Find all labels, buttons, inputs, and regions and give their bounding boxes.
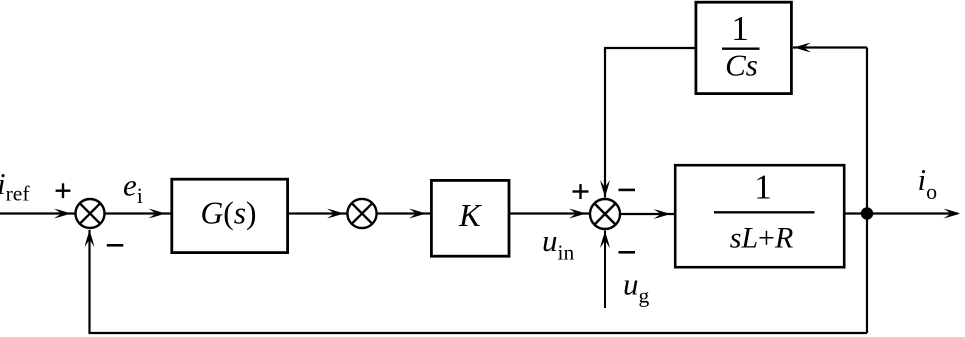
- block K: [431, 180, 509, 256]
- wire S2 to block 1/(sL+R): [620, 213, 675, 215]
- svg-text:1: 1: [731, 9, 749, 48]
- svg-text:K: K: [458, 197, 482, 233]
- svg-text:1: 1: [754, 167, 772, 206]
- wire node to 1/Cs input: [793, 46, 867, 48]
- wire multiplier to K: [377, 212, 431, 214]
- svg-text:Cs: Cs: [725, 48, 758, 83]
- wire input to summing junction S1: [0, 212, 75, 214]
- svg-text:sL+R: sL+R: [730, 221, 794, 254]
- wire S1 to G(s): [105, 212, 171, 214]
- wire node vertical: [866, 48, 868, 334]
- wire K to summing junction S2: [510, 212, 590, 214]
- block 1/Cs: [696, 2, 792, 93]
- node N1: [861, 207, 873, 219]
- plus sign at S1: [56, 183, 71, 198]
- wire G(s) to multiplier: [289, 212, 348, 214]
- wire u_g up into S2: [604, 231, 606, 309]
- minus sign top-right of S2: [619, 189, 636, 192]
- minus sign bottom-right of S2: [619, 251, 636, 254]
- block G(s): [172, 179, 288, 252]
- svg-text:G(s): G(s): [200, 196, 256, 231]
- plus sign at S2: [573, 184, 589, 199]
- block 1/(sL+R): [675, 165, 844, 267]
- summing junction S2: [590, 199, 620, 229]
- multiplier M1: [347, 199, 376, 228]
- summing junction S1: [76, 199, 105, 228]
- wire 1/Cs output down into S2: [605, 48, 695, 198]
- bottom feedback wire: [90, 230, 868, 333]
- wire block to output: [845, 212, 958, 214]
- minus sign at S1: [107, 244, 124, 247]
